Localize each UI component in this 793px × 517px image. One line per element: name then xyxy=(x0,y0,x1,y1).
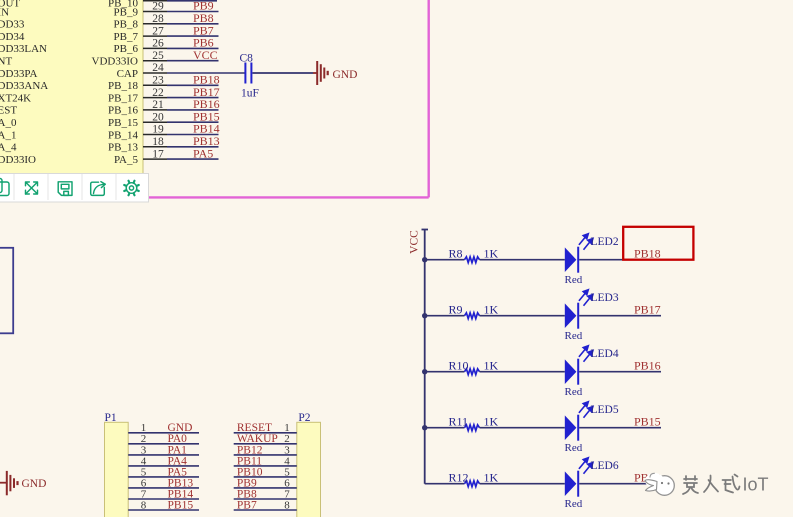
capacitor C8 1uF xyxy=(240,52,259,99)
svg-text:CAP: CAP xyxy=(117,68,138,80)
svg-text:R12: R12 xyxy=(449,471,469,485)
svg-text:1K: 1K xyxy=(484,359,499,373)
IC pin 30 (PB_10) : stub, wire, pin name PB_10, left pin name OUT xyxy=(0,0,217,9)
ground GND (power ground bar, right of C8) xyxy=(313,61,357,85)
svg-text:22: 22 xyxy=(152,87,164,99)
svg-text:PB18: PB18 xyxy=(634,246,661,260)
net label PB15 xyxy=(634,414,661,428)
svg-text:VCC: VCC xyxy=(409,230,421,254)
svg-text:IN: IN xyxy=(0,6,9,18)
svg-text:PB_6: PB_6 xyxy=(114,43,139,55)
svg-text:Red: Red xyxy=(565,442,583,454)
IC pin 24 (CAP) : stub, wire, pin name CAP, left pin name DD33PA, number 24 xyxy=(0,62,245,80)
svg-text:LED5: LED5 xyxy=(591,404,619,416)
svg-text:LED2: LED2 xyxy=(591,236,619,248)
svg-text:18: 18 xyxy=(152,136,164,148)
svg-text:PB_13: PB_13 xyxy=(108,142,138,154)
IC pin 29 (PB_9) : stub, wire, pin name PB_9, left pin name IN, number 29, net label PB9 xyxy=(0,0,219,18)
svg-text:PB_15: PB_15 xyxy=(108,117,138,129)
connector P1 pin 2, wire, net label PA0 xyxy=(128,433,199,445)
svg-text:PB_16: PB_16 xyxy=(108,105,138,117)
connector P2 pin 8, wire, net label PB7 xyxy=(234,499,297,511)
watermark logo (mascot + text), decorative overlay xyxy=(645,473,769,495)
svg-text:Red: Red xyxy=(565,386,583,398)
resistor R10 1K xyxy=(449,359,499,375)
svg-text:R11: R11 xyxy=(449,415,469,429)
svg-text:8: 8 xyxy=(141,499,147,511)
svg-text:17: 17 xyxy=(152,148,164,160)
svg-text:PB_17: PB_17 xyxy=(108,92,138,104)
svg-text:A_4: A_4 xyxy=(0,142,17,154)
svg-text:XT24K: XT24K xyxy=(0,92,31,104)
junction node VCC / R8 xyxy=(422,257,427,262)
svg-text:Red: Red xyxy=(565,330,583,342)
svg-text:PB7: PB7 xyxy=(237,499,257,511)
svg-text:DD33LAN: DD33LAN xyxy=(0,43,47,55)
connector P2 body xyxy=(297,412,321,517)
connector P1 pin 3, wire, net label PA1 xyxy=(128,444,199,456)
svg-text:LED4: LED4 xyxy=(591,348,619,360)
svg-text:PB16: PB16 xyxy=(634,358,661,372)
power port VCC (vertical rail) xyxy=(409,230,429,484)
svg-text:IoT: IoT xyxy=(743,475,769,495)
svg-text:A_1: A_1 xyxy=(0,129,16,141)
svg-text:20: 20 xyxy=(152,111,164,123)
svg-text:R9: R9 xyxy=(449,303,463,317)
svg-text:PB_18: PB_18 xyxy=(108,80,138,92)
resistor R8 1K xyxy=(449,247,499,263)
svg-text:29: 29 xyxy=(152,1,164,13)
wire VCC rail to R11 xyxy=(425,427,465,429)
IC pin 21 (PB_16) : stub, wire, pin name PB_16, left pin name EST, number 21, net label PB16 xyxy=(0,97,220,117)
svg-text:1K: 1K xyxy=(484,247,499,261)
IC pin 25 (VDD33IO) : stub, wire, pin name VDD33IO, left pin name NT, number 25, net label VCC xyxy=(0,48,219,68)
resistor R11 1K xyxy=(449,415,499,431)
connector P2 pin 6, wire, net label PB9 xyxy=(234,477,297,489)
LED LED2 (Red) xyxy=(565,234,619,287)
svg-text:PB_7: PB_7 xyxy=(114,31,139,43)
toolbar (floating UI with green icons) xyxy=(0,174,149,203)
svg-text:PB_14: PB_14 xyxy=(108,129,138,141)
connector P1 pin 5, wire, net label PA5 xyxy=(128,466,199,478)
svg-text:Red: Red xyxy=(565,274,583,286)
svg-text:GND: GND xyxy=(333,69,358,81)
svg-text:Red: Red xyxy=(565,498,583,510)
wire VCC rail to R10 xyxy=(425,371,465,373)
svg-text:R8: R8 xyxy=(449,247,463,261)
svg-text:EST: EST xyxy=(0,105,17,117)
svg-text:1uF: 1uF xyxy=(241,87,259,99)
connector P2 pin 4, wire, net label PB11 xyxy=(234,455,297,467)
connector P2 pin 7, wire, net label PB8 xyxy=(234,488,297,500)
svg-text:1K: 1K xyxy=(484,471,499,485)
svg-text:DD33PA: DD33PA xyxy=(0,68,37,80)
svg-text:23: 23 xyxy=(152,75,164,87)
junction node VCC / R10 xyxy=(422,369,427,374)
IC pin 20 (PB_15) : stub, wire, pin name PB_15, left pin name A_0, number 20, net label PB15 xyxy=(0,109,220,129)
svg-text:A_0: A_0 xyxy=(0,117,17,129)
selection highlight box around net PB18 xyxy=(623,227,693,260)
ground GND (bottom left) xyxy=(0,471,46,495)
svg-text:1K: 1K xyxy=(484,303,499,317)
connector P2 pin 5, wire, net label PB10 xyxy=(234,466,297,478)
svg-text:25: 25 xyxy=(152,50,164,62)
connector P1 pin 7, wire, net label PB14 xyxy=(128,488,199,500)
net label PB16 xyxy=(634,358,661,372)
LED LED5 (Red) xyxy=(565,402,619,455)
wire VCC rail to R12 xyxy=(425,483,465,485)
svg-text:P2: P2 xyxy=(298,412,310,424)
svg-text:PB_9: PB_9 xyxy=(114,6,139,18)
resistor R12 1K xyxy=(449,471,499,487)
net label PB17 xyxy=(634,302,661,316)
junction node VCC / R9 xyxy=(422,313,427,318)
svg-text:PA_5: PA_5 xyxy=(114,154,139,166)
svg-text:21: 21 xyxy=(152,99,164,111)
wire VCC rail to R8 xyxy=(425,259,465,261)
wire R8 to LED2 xyxy=(480,259,565,261)
connector P1 pin 8, wire, net label PB15 xyxy=(128,499,199,511)
wire C8 to GND xyxy=(253,72,314,74)
svg-text:PB15: PB15 xyxy=(168,499,194,511)
IC pin 17 (PA_5) : stub, wire, pin name PA_5, left pin name DD33IO, number 17, net label PA5 xyxy=(0,146,219,166)
svg-text:DD34: DD34 xyxy=(0,31,25,43)
IC pin 27 (PB_7) : stub, wire, pin name PB_7, left pin name DD34, number 27, net label PB7 xyxy=(0,23,219,43)
connector P2 pin 3, wire, net label PB12 xyxy=(234,444,297,456)
svg-text:DD33IO: DD33IO xyxy=(0,154,36,166)
svg-text:DD33ANA: DD33ANA xyxy=(0,80,48,92)
svg-text:PB_8: PB_8 xyxy=(114,19,139,31)
svg-text:P1: P1 xyxy=(105,412,117,424)
svg-text:8: 8 xyxy=(284,499,290,511)
svg-text:PB17: PB17 xyxy=(634,302,661,316)
svg-text:26: 26 xyxy=(152,38,164,50)
IC pin 19 (PB_14) : stub, wire, pin name PB_14, left pin name A_1, number 19, net label PB14 xyxy=(0,122,220,142)
wire VCC rail to R9 xyxy=(425,315,465,317)
wire LED4 to net PB16 xyxy=(579,371,661,373)
svg-text:NT: NT xyxy=(0,56,12,68)
connector P2 pin 1, wire, net label RESET xyxy=(234,422,297,434)
svg-text:PA5: PA5 xyxy=(193,146,213,160)
wire R10 to LED4 xyxy=(480,371,565,373)
wire LED2 to net PB18 xyxy=(579,259,661,261)
resistor R9 1K xyxy=(449,303,499,319)
LED LED4 (Red) xyxy=(565,346,619,399)
IC pin 18 (PB_13) : stub, wire, pin name PB_13, left pin name A_4, number 18, net label PB13 xyxy=(0,134,220,154)
IC pin 28 (PB_8) : stub, wire, pin name PB_8, left pin name DD33, number 28, net label PB8 xyxy=(0,11,219,31)
IC U1 body (MCU, partially off-screen) xyxy=(0,0,143,176)
svg-text:LED6: LED6 xyxy=(591,460,619,472)
connector P1 pin 4, wire, net label PA4 xyxy=(128,455,199,467)
wire LED6 to net PB14 xyxy=(579,483,661,485)
connector P1 pin 1, wire, net label GND xyxy=(128,422,199,434)
net label PB18 xyxy=(634,246,661,260)
svg-text:VCC: VCC xyxy=(193,48,218,62)
IC pin 22 (PB_17) : stub, wire, pin name PB_17, left pin name XT24K, number 22, net label PB17 xyxy=(0,85,220,105)
svg-text:LED3: LED3 xyxy=(591,292,619,304)
connector P2 pin 2, wire, net label WAKUP xyxy=(234,433,297,445)
svg-text:R10: R10 xyxy=(449,359,469,373)
junction node VCC / R11 xyxy=(422,425,427,430)
svg-text:VDD33IO: VDD33IO xyxy=(92,56,138,68)
IC pin 26 (PB_6) : stub, wire, pin name PB_6, left pin name DD33LAN, number 26, net label PB6 xyxy=(0,36,219,56)
svg-text:24: 24 xyxy=(152,62,164,74)
LED LED6 (Red) xyxy=(565,458,619,511)
connector P1 pin 6, wire, net label PB13 xyxy=(128,477,199,489)
wire R9 to LED3 xyxy=(480,315,565,317)
svg-text:PB15: PB15 xyxy=(634,414,661,428)
svg-text:27: 27 xyxy=(152,25,164,37)
svg-text:28: 28 xyxy=(152,13,164,25)
IC pin 23 (PB_18) : stub, wire, pin name PB_18, left pin name DD33ANA, number 23, net label PB18 xyxy=(0,73,220,93)
LED LED3 (Red) xyxy=(565,290,619,343)
svg-text:C8: C8 xyxy=(240,52,254,64)
svg-text:1K: 1K xyxy=(484,415,499,429)
wire R12 to LED6 xyxy=(480,483,565,485)
wire R11 to LED5 xyxy=(480,427,565,429)
svg-text:GND: GND xyxy=(22,478,47,490)
net label PB14 xyxy=(634,470,661,484)
wire LED3 to net PB17 xyxy=(579,315,661,317)
component body (partially off-screen, left edge) xyxy=(0,248,13,333)
svg-text:19: 19 xyxy=(152,124,164,136)
connector P1 body xyxy=(105,412,129,517)
wire LED5 to net PB15 xyxy=(579,427,661,429)
svg-text:DD33: DD33 xyxy=(0,19,25,31)
